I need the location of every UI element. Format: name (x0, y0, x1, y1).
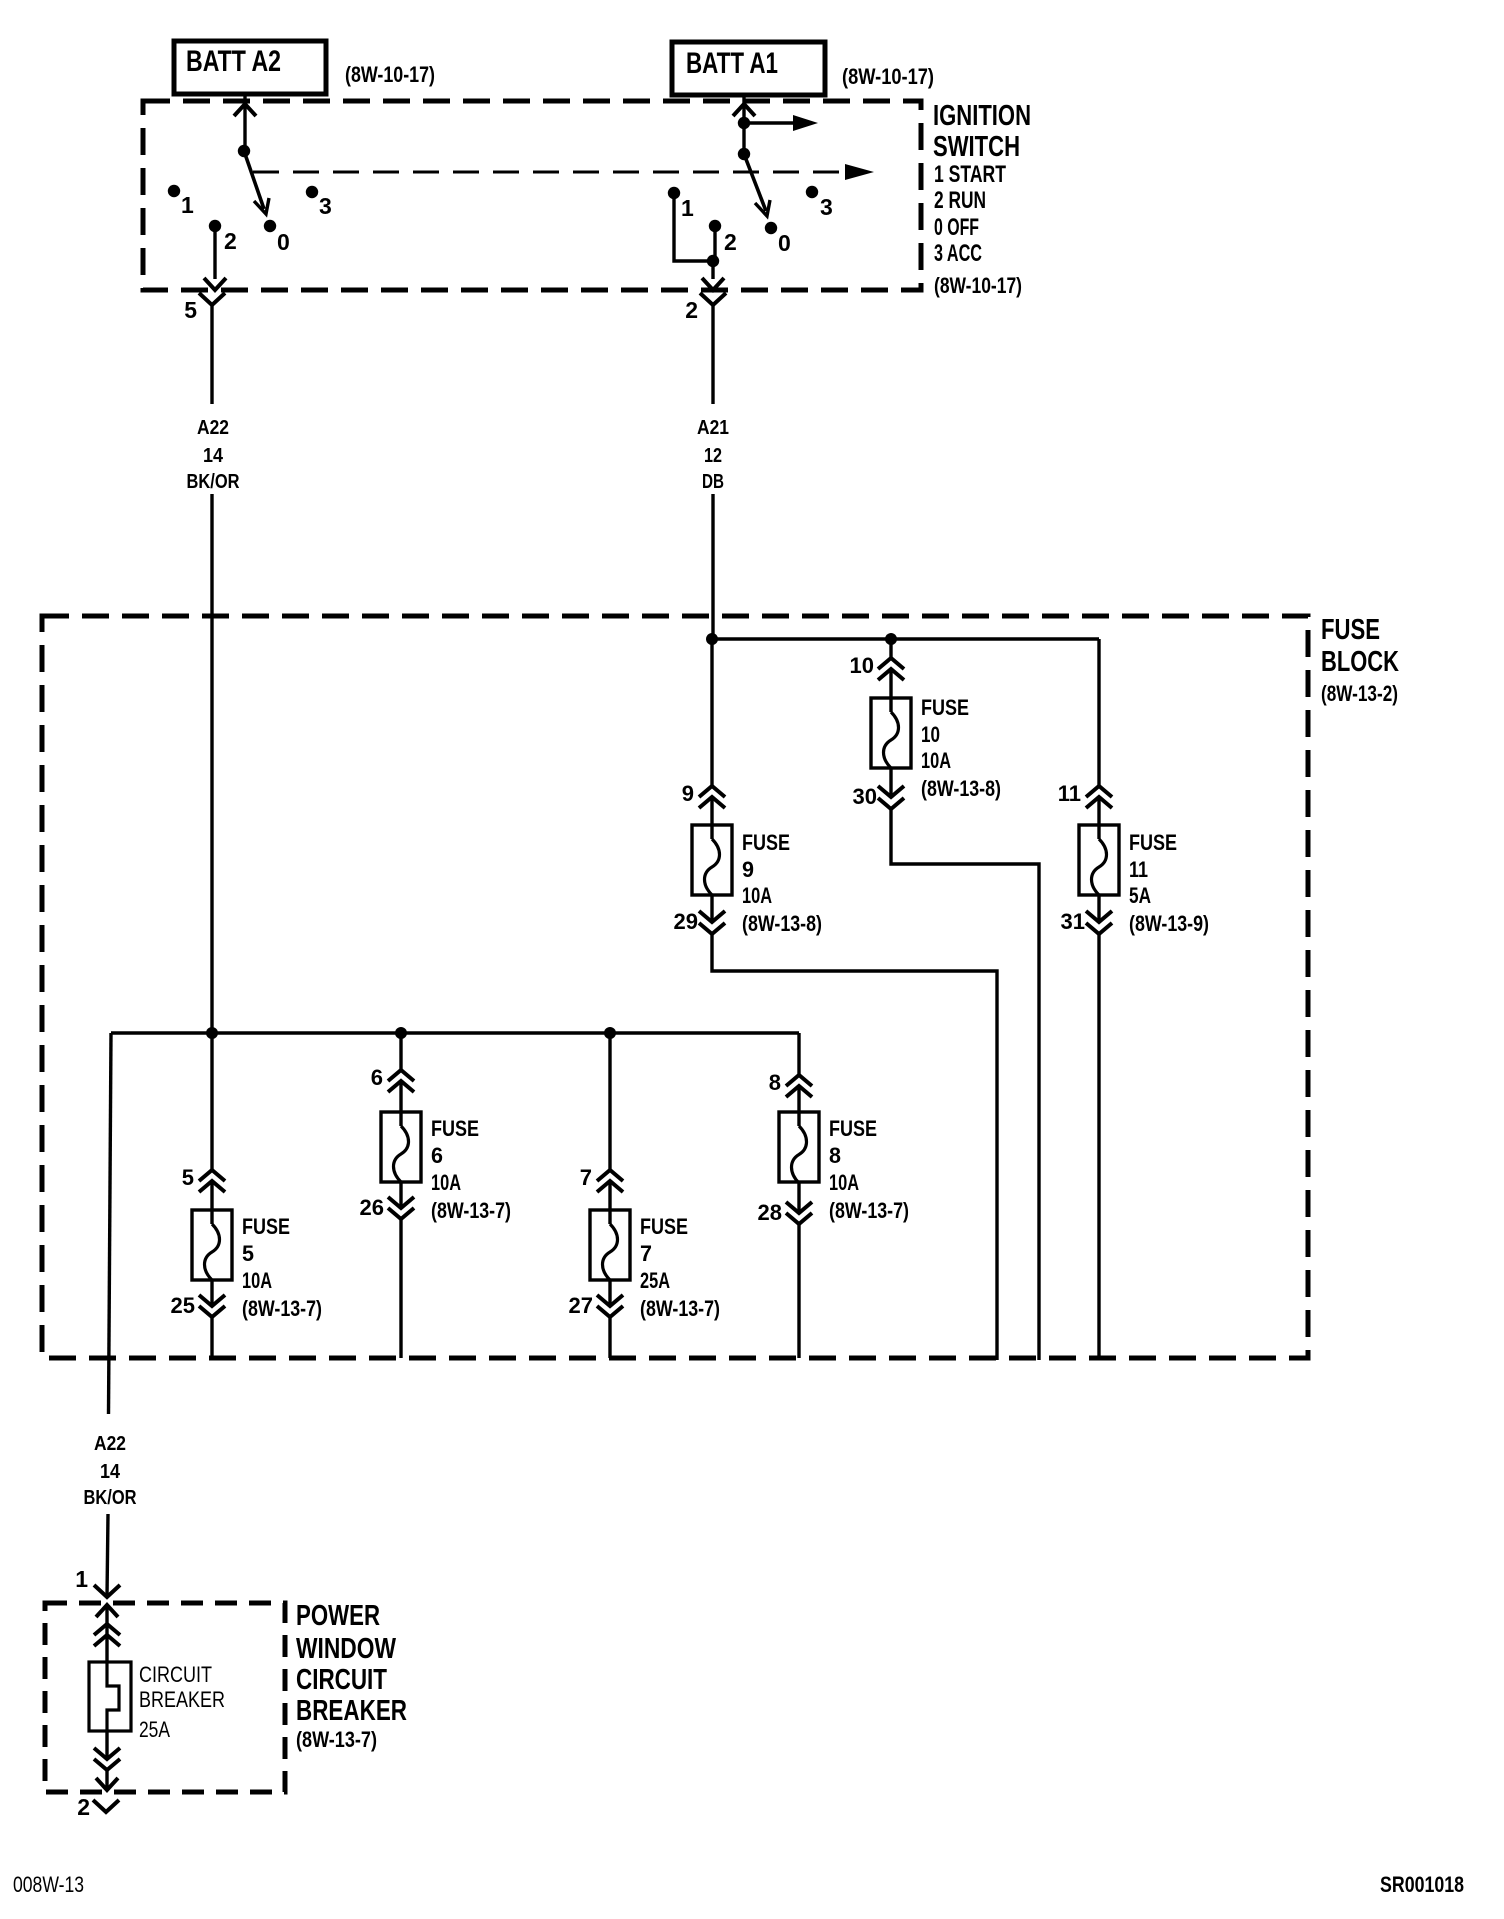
left switch wiper arm with arrowhead (244, 151, 264, 209)
svg-text:3: 3 (319, 193, 332, 219)
svg-text:BLOCK: BLOCK (1321, 646, 1399, 678)
svg-text:0 OFF: 0 OFF (934, 214, 979, 241)
svg-text:BATT A1: BATT A1 (686, 47, 778, 80)
svg-text:2: 2 (77, 1794, 90, 1820)
exit arrow at circuit breaker box edge (96, 1778, 118, 1790)
svg-text:008W-13: 008W-13 (13, 1872, 84, 1897)
wire from pin 30 routed down (891, 809, 1039, 1360)
wire to fuse 8 (797, 1033, 800, 1075)
svg-text:CIRCUIT: CIRCUIT (296, 1664, 387, 1696)
fuse F11 label FUSE 11 5A (8W-13-9) (1129, 830, 1209, 936)
fuse F5 label FUSE 5 10A (8W-13-7) (242, 1214, 322, 1321)
wire to left wiper pivot (243, 104, 246, 151)
junction of contacts 1 and 2 (707, 255, 719, 267)
svg-text:10A: 10A (242, 1268, 272, 1293)
entry arrow into ignition switch left (234, 104, 256, 116)
svg-text:11: 11 (1058, 781, 1081, 806)
connector pin 6 of fuse block (388, 1070, 414, 1081)
svg-text:25A: 25A (640, 1268, 670, 1293)
wire from pin 29 routed down (712, 934, 997, 1360)
connector pin 29 of fuse block (699, 911, 725, 922)
connector pin 27 of fuse block (597, 1295, 623, 1306)
right wiper pivot node (738, 148, 750, 160)
wire into fuse 10 (889, 669, 892, 712)
left switch contact 2 (209, 220, 221, 232)
svg-text:DB: DB (702, 471, 724, 493)
svg-text:(8W-10-17): (8W-10-17) (345, 62, 435, 87)
svg-text:1 START: 1 START (934, 161, 1006, 188)
wire from junction to pin 2 (711, 261, 714, 279)
right switch contact 1 (668, 187, 680, 199)
wire from BATT A2 into switch (243, 94, 246, 104)
svg-text:7: 7 (580, 1165, 592, 1190)
battery bus wire in fuse block lower (111, 1031, 799, 1034)
svg-text:10A: 10A (431, 1170, 461, 1195)
entry arrow into circuit breaker box (96, 1605, 118, 1617)
connector pin 2 (700, 293, 726, 305)
left switch contact 0 (264, 220, 276, 232)
svg-text:14: 14 (203, 445, 224, 467)
svg-text:6: 6 (431, 1143, 443, 1168)
connector pin 31 of fuse block (1086, 911, 1112, 922)
svg-text:BK/OR: BK/OR (84, 1487, 137, 1509)
right switch contact 3 (806, 186, 818, 198)
svg-text:5: 5 (182, 1165, 194, 1190)
wire from pin 28 to box edge (797, 1224, 800, 1358)
connector pin 11 of fuse block (1086, 786, 1112, 797)
svg-text:2: 2 (224, 228, 237, 254)
svg-text:26: 26 (360, 1195, 384, 1220)
fuse block label (1321, 614, 1399, 706)
svg-text:2: 2 (724, 229, 737, 255)
left wiper pivot node (238, 145, 250, 157)
svg-text:FUSE: FUSE (1321, 614, 1380, 646)
svg-text:31: 31 (1061, 909, 1085, 934)
wire from pin 31 down (1097, 934, 1100, 1360)
node fuse 7 branch junction (604, 1027, 616, 1039)
wire to fuse 11 (1097, 639, 1100, 786)
left switch contact 3 (306, 186, 318, 198)
svg-text:SR001018: SR001018 (1380, 1872, 1464, 1897)
fuse F7 element (603, 1224, 618, 1280)
connector pin 2 below circuit breaker box (93, 1800, 119, 1812)
svg-text:10: 10 (850, 653, 874, 678)
ignition switch label block (933, 100, 1031, 298)
wire from contact 2 to pin 5 (213, 230, 216, 279)
svg-text:5A: 5A (1129, 883, 1151, 908)
svg-text:2 RUN: 2 RUN (934, 187, 986, 214)
node A21 feed junction (706, 633, 718, 645)
svg-text:A22: A22 (94, 1433, 126, 1455)
svg-text:(8W-10-17): (8W-10-17) (934, 273, 1022, 298)
right switch contact 2 (709, 220, 721, 232)
connector below circuit breaker (94, 1748, 120, 1759)
rotation dashed line with arrow (253, 171, 845, 174)
svg-text:FUSE: FUSE (742, 830, 790, 855)
wire from contact 1 down to junction (674, 197, 713, 261)
wire out of fuse 8 (797, 1183, 800, 1213)
svg-text:1: 1 (181, 192, 194, 218)
svg-text:SWITCH: SWITCH (933, 131, 1020, 163)
right switch wiper arm with arrowhead (744, 154, 766, 211)
svg-text:14: 14 (100, 1461, 121, 1483)
svg-text:0: 0 (778, 230, 791, 256)
fuse F10 body (871, 698, 911, 768)
svg-text:(8W-13-8): (8W-13-8) (921, 776, 1001, 801)
wire into fuse 7 (608, 1181, 611, 1224)
fuse F9 element (705, 839, 720, 895)
arrow to start circuit (744, 121, 798, 125)
svg-text:FUSE: FUSE (242, 1214, 290, 1239)
wire out of fuse 10 (889, 768, 892, 797)
fuse F8 body (779, 1112, 819, 1182)
svg-text:28: 28 (758, 1200, 782, 1225)
svg-text:30: 30 (853, 784, 877, 809)
wire out of fuse 7 (608, 1280, 611, 1306)
svg-text:10A: 10A (742, 883, 772, 908)
svg-text:(8W-13-7): (8W-13-7) (296, 1727, 377, 1752)
power window circuit breaker dashed box (45, 1603, 285, 1792)
svg-text:(8W-13-7): (8W-13-7) (640, 1296, 720, 1321)
svg-text:FUSE: FUSE (829, 1116, 877, 1141)
wire to fuse 7 (608, 1033, 611, 1170)
circuit breaker CB element (107, 1662, 119, 1731)
entry arrow into ignition switch right (733, 104, 755, 116)
svg-text:29: 29 (674, 909, 698, 934)
connector pin 10 of fuse block (878, 658, 904, 669)
connector pin 26 of fuse block (388, 1197, 414, 1208)
wire to fuse 6 (399, 1033, 402, 1070)
svg-text:(8W-13-9): (8W-13-9) (1129, 911, 1209, 936)
svg-text:CIRCUIT: CIRCUIT (139, 1662, 212, 1687)
svg-text:(8W-10-17): (8W-10-17) (842, 64, 934, 89)
fuse F11 element (1092, 839, 1107, 895)
svg-text:3: 3 (820, 194, 833, 220)
svg-text:FUSE: FUSE (431, 1116, 479, 1141)
svg-text:A21: A21 (697, 417, 729, 439)
svg-text:7: 7 (640, 1241, 652, 1266)
wire to fuse 5 (210, 1033, 213, 1170)
left switch contact 1 (168, 185, 180, 197)
svg-text:BREAKER: BREAKER (139, 1687, 225, 1712)
svg-text:11: 11 (1129, 857, 1148, 882)
svg-text:10A: 10A (921, 748, 951, 773)
connector pin 5 of fuse block (199, 1170, 225, 1181)
svg-text:10: 10 (921, 722, 940, 747)
wire A21 upper segment (711, 305, 714, 404)
wire from pin 27 to box edge (608, 1317, 611, 1358)
node A22 bus junction (206, 1027, 218, 1039)
connector pin 7 of fuse block (597, 1170, 623, 1181)
svg-text:10A: 10A (829, 1170, 859, 1195)
svg-text:6: 6 (371, 1065, 383, 1090)
wire out of fuse 9 (710, 895, 713, 922)
fuse F8 element (792, 1126, 807, 1183)
svg-text:1: 1 (681, 195, 694, 221)
wire A22 to fuse block (210, 494, 213, 1033)
svg-text:BK/OR: BK/OR (187, 471, 240, 493)
wire label A22 14 BK/OR lower (84, 1433, 137, 1509)
svg-text:WINDOW: WINDOW (296, 1633, 396, 1665)
svg-text:9: 9 (682, 781, 694, 806)
svg-text:POWER: POWER (296, 1600, 380, 1632)
fuse F6 label FUSE 6 10A (8W-13-7) (431, 1116, 511, 1223)
right feed node (738, 117, 750, 129)
connector pin 1 of circuit breaker (94, 1585, 120, 1597)
wire into fuse 5 (210, 1181, 213, 1224)
wire A21 to fuse block (711, 494, 714, 639)
fuse F11 body (1079, 825, 1119, 895)
svg-text:0: 0 (277, 229, 290, 255)
svg-text:5: 5 (184, 297, 197, 323)
wire into fuse 8 (797, 1086, 800, 1126)
svg-text:2: 2 (685, 297, 698, 323)
exit arrow at box edge pin 5 (204, 278, 226, 290)
fuse F7 label FUSE 7 25A (8W-13-7) (640, 1214, 720, 1321)
svg-text:A22: A22 (197, 417, 229, 439)
wire to fuse 10 (889, 639, 892, 658)
svg-text:(8W-13-7): (8W-13-7) (242, 1296, 322, 1321)
fuse F6 element (394, 1126, 409, 1182)
wire to right feed node (742, 104, 745, 154)
connector pin 25 of fuse block (199, 1295, 225, 1306)
svg-text:8: 8 (829, 1143, 841, 1168)
battery feed box BATT A2 (174, 41, 326, 94)
circuit breaker CB body (89, 1662, 131, 1731)
fuse block dashed box (42, 616, 1308, 1358)
wire from contact 2 down to junction (713, 230, 716, 261)
power window circuit breaker label block (296, 1600, 407, 1752)
wire out of fuse 11 (1097, 895, 1100, 922)
svg-text:25A: 25A (139, 1717, 170, 1742)
fuse F9 body (692, 825, 732, 895)
fuse F5 body (192, 1210, 232, 1280)
wire out of fuse 5 (210, 1280, 213, 1306)
svg-text:(8W-13-8): (8W-13-8) (742, 911, 822, 936)
svg-text:12: 12 (704, 445, 722, 467)
wire into circuit breaker (105, 1605, 108, 1662)
wire to box edge pin 2 (105, 1770, 108, 1790)
fuse F9 label FUSE 9 10A (8W-13-8) (742, 830, 822, 936)
feed bus wire in fuse block upper (712, 637, 1099, 640)
wire into fuse 11 (1097, 797, 1100, 839)
ignition switch dashed box (143, 101, 921, 290)
svg-text:IGNITION: IGNITION (933, 100, 1031, 132)
svg-text:9: 9 (742, 857, 754, 882)
exit arrow at box edge pin 2 (702, 278, 724, 290)
wire A22 upper segment (210, 305, 213, 404)
svg-text:5: 5 (242, 1241, 254, 1266)
connector pin 5 (199, 293, 225, 305)
node fuse 10 branch junction (885, 633, 897, 645)
svg-text:8: 8 (769, 1070, 781, 1095)
connector inside circuit breaker box (94, 1624, 120, 1635)
wire A22 lower segment (109, 1033, 112, 1414)
svg-text:(8W-13-7): (8W-13-7) (829, 1198, 909, 1223)
svg-text:FUSE: FUSE (1129, 830, 1177, 855)
connector pin 8 of fuse block (786, 1075, 812, 1086)
connector pin 30 of fuse block (878, 786, 904, 797)
wire label A22 14 BK/OR upper (187, 417, 240, 493)
wire from pin 26 to box edge (399, 1219, 402, 1358)
fuse F10 label FUSE 10 10A (8W-13-8) (921, 695, 1001, 801)
svg-text:BREAKER: BREAKER (296, 1695, 407, 1727)
svg-text:27: 27 (569, 1293, 593, 1318)
svg-text:BATT A2: BATT A2 (186, 45, 281, 78)
wire from BATT A1 into switch (742, 95, 745, 104)
right switch contact 0 (765, 222, 777, 234)
fuse F7 body (590, 1210, 630, 1280)
svg-text:3 ACC: 3 ACC (934, 240, 982, 267)
svg-text:FUSE: FUSE (921, 695, 969, 720)
connector pin 28 of fuse block (786, 1202, 812, 1213)
fuse F10 element (884, 712, 899, 768)
connector pin 9 of fuse block (699, 786, 725, 797)
wire into fuse 6 (399, 1081, 402, 1126)
fuse F8 label FUSE 8 10A (8W-13-7) (829, 1116, 909, 1223)
circuit breaker label CIRCUIT BREAKER 25A (139, 1662, 225, 1742)
svg-text:(8W-13-2): (8W-13-2) (1321, 681, 1398, 706)
wire out of fuse 6 (399, 1182, 402, 1208)
svg-text:1: 1 (75, 1566, 88, 1592)
svg-text:(8W-13-7): (8W-13-7) (431, 1198, 511, 1223)
wire into fuse 9 (710, 797, 713, 839)
wire from pin 25 to box edge (210, 1317, 213, 1358)
wire label A21 12 DB (697, 417, 729, 493)
wire A22 to circuit breaker (107, 1514, 108, 1597)
wire out of circuit breaker (105, 1731, 108, 1759)
battery feed box BATT A1 (672, 42, 825, 95)
wire to fuse 9 (710, 639, 713, 786)
svg-text:FUSE: FUSE (640, 1214, 688, 1239)
svg-text:25: 25 (171, 1293, 195, 1318)
fuse F6 body (381, 1112, 421, 1182)
fuse F5 element (205, 1224, 220, 1280)
node fuse 6 branch junction (395, 1027, 407, 1039)
